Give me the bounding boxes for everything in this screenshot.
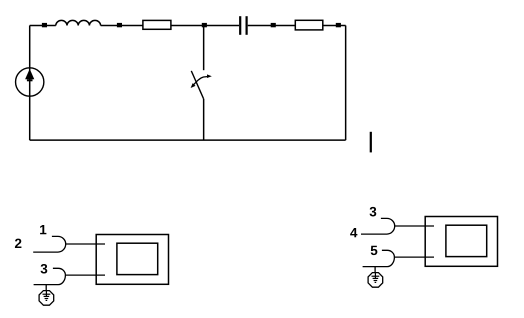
current source I1 arrow (25, 69, 34, 81)
ground symbol left octagon (39, 291, 54, 306)
junction node 2 (117, 23, 122, 27)
junction node 3 (202, 23, 207, 27)
ground symbol right glyph (372, 273, 380, 283)
switch S1 arrowhead left (191, 83, 196, 88)
oscilloscope XSC1 screen (117, 243, 158, 274)
current source I1 circle (16, 68, 44, 96)
switch S1 blade (191, 71, 203, 99)
resistor R2 (295, 20, 323, 30)
oscilloscope XSC1 outer box (96, 235, 168, 285)
wire left vertical (29, 26, 31, 141)
wire top segment A (30, 25, 56, 27)
junction node 5 (336, 23, 341, 27)
ground symbol right octagon (368, 273, 383, 288)
capacitor C1 plate 2 (246, 16, 248, 35)
wire middle vertical lower (203, 99, 205, 140)
pin hook 5-gnd (363, 250, 395, 266)
pin hook 1-2 (33, 236, 65, 252)
wire hook 5 to scope (394, 256, 434, 258)
wire ground stub right (374, 267, 376, 273)
wire hook 3-4 to scope (395, 225, 434, 227)
pin label 4 (350, 228, 357, 237)
pin hook 3-4 (361, 218, 395, 234)
resistor R1 (143, 20, 171, 29)
text cursor bar (370, 132, 372, 153)
pin label 3 right (370, 207, 377, 217)
wire top segment B (101, 25, 240, 27)
pin label 1 (40, 225, 46, 234)
wire ground stub left (45, 285, 47, 291)
wire hook 3 to scope (65, 274, 105, 276)
pin label 2 (15, 239, 21, 248)
capacitor C1 plate 1 (239, 16, 241, 35)
junction node 4 (271, 23, 276, 27)
wire middle vertical upper (203, 26, 205, 71)
oscilloscope XSC2 screen (446, 225, 487, 256)
pin label 5 (371, 246, 378, 255)
switch S1 arrowhead right (207, 74, 212, 78)
inductor L1 (56, 20, 101, 25)
pin hook 3-gnd (34, 268, 66, 284)
ground symbol left glyph (43, 291, 51, 301)
switch S1 arrow curve (192, 76, 210, 86)
junction node 1 (42, 23, 47, 27)
wire right vertical (345, 26, 347, 141)
wire bottom (30, 139, 346, 141)
pin label 3 (41, 264, 48, 274)
wire top segment C (248, 25, 346, 27)
oscilloscope XSC2 outer box (425, 217, 497, 267)
wire hook 1-2 to scope (66, 243, 105, 245)
